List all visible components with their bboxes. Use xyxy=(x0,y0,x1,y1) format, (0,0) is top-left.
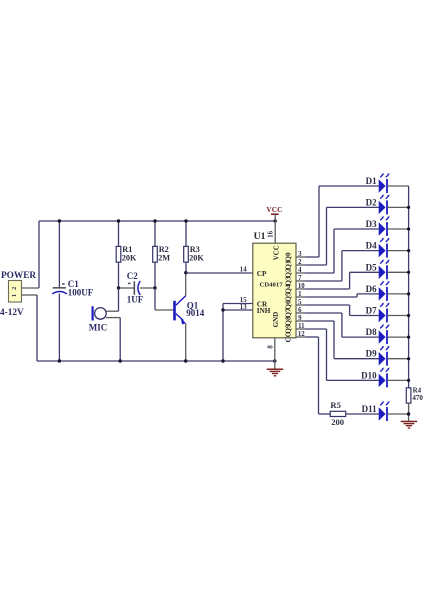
wire R2 bottom xyxy=(154,262,156,288)
wire Q4 to LED D5 xyxy=(350,271,379,273)
pin 9 Q8 of U1 xyxy=(283,315,305,326)
svg-text:U1: U1 xyxy=(254,231,266,242)
IC U1 CD4017 body xyxy=(253,243,296,338)
svg-text:14: 14 xyxy=(240,267,247,274)
node rail-D7 xyxy=(407,314,410,317)
wire pin16 xyxy=(274,221,276,243)
wire POWER pin1 lead xyxy=(22,294,38,296)
wire Q1 riser xyxy=(326,207,328,265)
svg-text:2: 2 xyxy=(11,287,18,290)
wire D3 cathode xyxy=(388,228,409,230)
LED D8 xyxy=(379,324,390,344)
ground below U1 xyxy=(267,362,283,377)
wire Q9 to LED D10 xyxy=(327,379,379,381)
node rail-D2 xyxy=(407,206,410,209)
node R4-D11 xyxy=(407,412,410,415)
wire Q9 to riser xyxy=(306,328,327,330)
wire Q5 riser xyxy=(356,294,358,297)
svg-text:D5: D5 xyxy=(366,262,377,272)
wire INH net xyxy=(223,309,253,311)
pin 2 Q1 of U1 xyxy=(283,259,305,270)
node gndrail-pin8 xyxy=(273,359,276,362)
wire Q6 riser xyxy=(349,305,351,316)
microphone MIC xyxy=(92,306,107,320)
wire C2 left xyxy=(119,287,134,289)
wire Q7 riser xyxy=(341,313,343,337)
svg-text:16: 16 xyxy=(268,230,275,237)
wire CO riser xyxy=(318,337,320,414)
svg-text:10: 10 xyxy=(298,283,305,290)
svg-text:1: 1 xyxy=(11,294,18,297)
wire Q2 to LED D3 xyxy=(334,228,379,230)
pin 4 Q2 of U1 xyxy=(283,267,305,278)
node rail-R1 xyxy=(117,219,120,222)
wire R2 top xyxy=(154,221,156,247)
wire collector xyxy=(185,273,187,296)
pin 12 CO of U1 xyxy=(283,331,305,343)
ground below R4 xyxy=(401,421,417,429)
resistor R3 xyxy=(184,246,189,262)
wire Q3 riser xyxy=(341,251,343,281)
node tie-gnd rail xyxy=(221,359,224,362)
node rail-D5 xyxy=(407,271,410,274)
node gndrail-emitter xyxy=(184,359,187,362)
wire left vertical to top rail xyxy=(38,221,40,288)
pin 3 Q0 of U1 xyxy=(283,251,305,262)
svg-text:D7: D7 xyxy=(366,306,377,316)
wire MIC minus xyxy=(106,317,120,319)
wire D5 cathode xyxy=(388,271,409,273)
wire CO to LED D11 xyxy=(319,413,331,415)
wire VCC top rail xyxy=(39,220,275,222)
node R2-C2 base divider xyxy=(153,286,156,289)
wire Q5 to riser xyxy=(306,296,358,298)
svg-text:9014: 9014 xyxy=(186,308,205,318)
node rail-D3 xyxy=(407,227,410,230)
node rail-D8 xyxy=(407,336,410,339)
wire D9 cathode xyxy=(388,358,409,360)
LED D4 xyxy=(379,238,390,258)
wire POWER pin2 to rail xyxy=(22,287,40,289)
wire emitter xyxy=(185,323,187,361)
node rail-R2 xyxy=(153,219,156,222)
wire Q6 to LED D7 xyxy=(350,315,379,317)
wire Q7 to riser xyxy=(306,312,342,314)
svg-text:C2: C2 xyxy=(127,271,138,281)
wire Q1 to riser xyxy=(306,264,327,266)
svg-text:2: 2 xyxy=(298,259,302,266)
svg-text:MIC: MIC xyxy=(89,323,108,333)
wire Q0 to LED D1 xyxy=(319,185,379,187)
svg-text:D6: D6 xyxy=(366,284,377,294)
LED D1 xyxy=(379,173,390,193)
connector J1 POWER xyxy=(9,281,22,303)
LED D6 xyxy=(379,281,390,301)
wire R3 bottom xyxy=(185,262,187,273)
transistor Q1 xyxy=(173,296,186,325)
wire Q6 to riser xyxy=(306,304,350,306)
wire GND bottom rail xyxy=(37,360,275,362)
svg-text:4: 4 xyxy=(298,267,302,274)
node gndrail-C1 xyxy=(58,359,61,362)
pin 6 Q7 of U1 xyxy=(283,307,305,318)
wire R1 bottom xyxy=(118,262,120,288)
wire base xyxy=(155,309,173,311)
wire MIC minus drop xyxy=(119,318,121,361)
wire R4 to ground xyxy=(408,403,410,421)
wire Q0 riser xyxy=(318,186,320,257)
wire MIC plus xyxy=(106,310,119,312)
wire Q2 to riser xyxy=(306,272,335,274)
svg-text:D8: D8 xyxy=(366,327,377,337)
LED D9 xyxy=(379,346,390,366)
wire D10 cathode xyxy=(388,379,409,381)
wire D8 cathode xyxy=(388,336,409,338)
svg-text:7: 7 xyxy=(298,275,302,282)
wire Q8 to LED D9 xyxy=(334,358,379,360)
wire Q8 riser xyxy=(333,321,335,359)
wire CR net xyxy=(223,303,253,305)
pin 11 Q9 of U1 xyxy=(283,323,305,334)
wire Q7 to LED D8 xyxy=(342,336,379,338)
svg-text:CP: CP xyxy=(257,270,267,278)
wire LED common rail xyxy=(408,186,410,388)
wire Q4 to riser xyxy=(306,288,350,290)
wire D7 cathode xyxy=(388,315,409,317)
wire D2 cathode xyxy=(388,206,409,208)
svg-text:8: 8 xyxy=(267,345,274,349)
wire CP net xyxy=(186,272,253,274)
node rail-D4 xyxy=(407,249,410,252)
node R1-C2-MIC xyxy=(117,286,120,289)
svg-text:CD4017: CD4017 xyxy=(260,282,284,289)
LED D11 xyxy=(379,401,390,421)
wire R1 top xyxy=(118,221,120,247)
wire CR-INH tie xyxy=(222,304,224,362)
wire C1 bottom xyxy=(58,294,60,361)
svg-text:1: 1 xyxy=(298,291,302,298)
node rail-VCC xyxy=(274,219,277,222)
wire Q2 riser xyxy=(333,229,335,273)
wire Q1 to LED D2 xyxy=(327,206,379,208)
svg-text:3: 3 xyxy=(298,251,302,258)
svg-text:4-12V: 4-12V xyxy=(0,308,24,318)
svg-text:1UF: 1UF xyxy=(127,295,144,305)
wire D1 cathode xyxy=(388,185,409,187)
wire Q9 riser xyxy=(326,329,328,380)
wire Q4 riser xyxy=(349,272,351,289)
wire D6 cathode xyxy=(388,293,409,295)
svg-text:GND: GND xyxy=(272,312,280,328)
pin 5 Q6 of U1 xyxy=(283,299,305,310)
wire left vertical to ground rail xyxy=(36,295,38,361)
svg-text:20K: 20K xyxy=(189,254,204,263)
svg-text:D4: D4 xyxy=(366,241,377,251)
LED D10 xyxy=(379,368,390,388)
wire C1 top xyxy=(58,221,60,287)
wire Q0 to riser xyxy=(306,256,320,258)
svg-text:100UF: 100UF xyxy=(68,288,94,298)
resistor R2 xyxy=(153,246,158,262)
svg-text:VCC: VCC xyxy=(266,205,282,214)
svg-text:20K: 20K xyxy=(122,254,137,263)
node gndrail-MIC xyxy=(119,359,122,362)
wire pin8 xyxy=(274,338,276,362)
svg-text:R5: R5 xyxy=(330,400,341,410)
pin 7 Q3 of U1 xyxy=(283,275,305,286)
svg-text:CO: CO xyxy=(283,331,292,342)
node collector-R3-CP xyxy=(184,271,187,274)
wire MIC plus riser xyxy=(118,288,120,311)
wire Q3 to LED D4 xyxy=(342,250,379,252)
node rail-D9 xyxy=(407,357,410,360)
LED D3 xyxy=(379,216,390,236)
node rail-C1 xyxy=(58,219,61,222)
node rail-R3 xyxy=(184,219,187,222)
svg-text:2M: 2M xyxy=(158,254,170,263)
wire CO to riser xyxy=(306,336,319,338)
svg-text:VCC: VCC xyxy=(273,245,281,260)
wire D11 cathode xyxy=(388,413,409,415)
node rail-D10 xyxy=(407,379,410,382)
power symbol VCC xyxy=(266,205,282,221)
svg-text:INH: INH xyxy=(257,307,271,315)
node CR-INH xyxy=(221,308,224,311)
svg-text:D11: D11 xyxy=(362,404,378,414)
svg-text:11: 11 xyxy=(298,323,305,330)
wire R2 to base node xyxy=(154,288,156,310)
resistor R5 xyxy=(330,411,346,416)
LED D5 xyxy=(379,259,390,279)
svg-text:200: 200 xyxy=(331,417,344,427)
node rail-D6 xyxy=(407,292,410,295)
wire D4 cathode xyxy=(388,250,409,252)
svg-text:12: 12 xyxy=(298,331,305,338)
wire R5 to D11 xyxy=(346,413,379,415)
svg-text:D10: D10 xyxy=(361,370,377,380)
wire Q3 to riser xyxy=(306,280,342,282)
wire C2 right xyxy=(140,287,155,289)
svg-text:6: 6 xyxy=(298,307,302,314)
LED D7 xyxy=(379,303,390,323)
svg-text:R2: R2 xyxy=(159,245,169,254)
svg-text:13: 13 xyxy=(240,304,247,311)
wire Q5 to LED D6 xyxy=(357,293,379,295)
svg-text:D1: D1 xyxy=(366,176,377,186)
svg-text:9: 9 xyxy=(298,315,302,322)
capacitor C1 xyxy=(52,283,67,294)
wire R3 top xyxy=(185,221,187,247)
svg-text:470: 470 xyxy=(412,394,423,402)
capacitor C2 xyxy=(128,281,140,295)
svg-text:D9: D9 xyxy=(366,349,377,359)
svg-text:POWER: POWER xyxy=(1,271,36,281)
svg-text:D3: D3 xyxy=(366,219,377,229)
pin 10 Q4 of U1 xyxy=(283,283,305,294)
pin 1 Q5 of U1 xyxy=(283,291,305,302)
svg-text:5: 5 xyxy=(298,299,302,306)
svg-text:R3: R3 xyxy=(190,245,200,254)
resistor R4 xyxy=(406,388,411,403)
resistor R1 xyxy=(116,246,121,262)
LED D2 xyxy=(379,195,390,215)
svg-text:D2: D2 xyxy=(366,197,377,207)
wire Q8 to riser xyxy=(306,320,335,322)
svg-text:R1: R1 xyxy=(122,245,132,254)
